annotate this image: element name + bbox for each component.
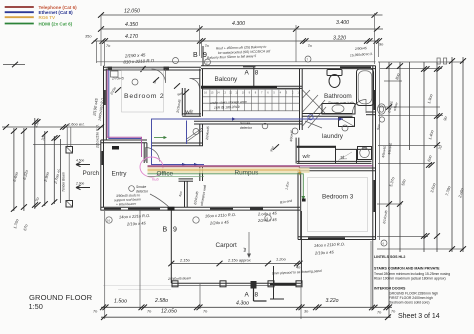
porch posts (66, 147, 73, 208)
section marker B9 top (193, 46, 207, 66)
wall: bathroom south (302, 112, 375, 116)
wall: closet row north (dark) (297, 147, 372, 150)
svg-text:4.300: 4.300 (232, 21, 245, 27)
eave overhang line top (97, 61, 376, 63)
svg-text:Rumpus: Rumpus (235, 169, 259, 176)
svg-text:1:50: 1:50 (29, 302, 43, 311)
wall: bathroom west (300, 69, 303, 130)
bedroom2 inner outline (122, 71, 164, 113)
svg-text:Balcony: Balcony (215, 76, 239, 83)
bedroom2 ceiling mark (109, 77, 159, 96)
rg6 orange line + drop arrow (148, 170, 302, 176)
carport east edge (300, 211, 302, 284)
svg-text:2.9oo: 2.9oo (75, 182, 84, 186)
telephone red line office to bed3 (148, 166, 373, 167)
bedroom3 inner outline (308, 178, 368, 232)
svg-text:2/70x45: 2/70x45 (111, 77, 124, 81)
bottom dim extension verticals (105, 211, 371, 320)
A8 section bottom (245, 281, 267, 301)
NW corner pier (111, 71, 124, 81)
svg-text:fall: fall (243, 248, 247, 252)
rotated notes beside office east wall (178, 126, 210, 206)
wall: bedroom3 north (299, 168, 376, 171)
svg-text:GROUND FLOOR: GROUND FLOOR (29, 293, 93, 302)
wall: left exterior (104, 66, 107, 142)
svg-text:3.220: 3.220 (333, 35, 346, 41)
carport fall arrow (243, 232, 251, 258)
wall: w/r2 west (296, 138, 299, 164)
left wall window rotated labels (91, 97, 104, 121)
balcony rail dark band (201, 86, 302, 88)
driveway faint lines (103, 286, 171, 290)
wall: entry/office divider (144, 143, 147, 163)
top dim line C 350 4.170 3.220 (85, 34, 384, 48)
wall: south exterior (101, 207, 300, 211)
svg-text:Bathroom: Bathroom (324, 93, 352, 100)
smoke detector 2 (240, 122, 268, 130)
svg-text:2.6oo w.t.: 2.6oo w.t. (67, 122, 85, 127)
B9 section line bottom (163, 211, 178, 284)
meter box black (112, 146, 119, 150)
svg-text:FIRST FLOOR 2400mm high: FIRST FLOOR 2400mm high (389, 296, 433, 300)
w/r1 door arc (190, 79, 200, 89)
svg-text:Porch: Porch (83, 170, 100, 177)
legend RG6 TV line (5, 15, 56, 20)
svg-text:Smoke: Smoke (240, 122, 250, 126)
bottom dim line D (93, 298, 396, 313)
blue arrowheads (182, 117, 343, 166)
svg-text:(bedroom doors solid core): (bedroom doors solid core) (389, 301, 430, 305)
studs note (114, 193, 141, 206)
svg-text:1.5oo: 1.5oo (114, 299, 127, 305)
svg-text:detector: detector (240, 126, 253, 130)
green stub near w/r (154, 136, 167, 139)
wall: stairwell west (200, 69, 203, 117)
top dim line B 4.350 4.300 3.400 (98, 20, 383, 32)
legend HDMI line (5, 21, 73, 26)
circled ref right (381, 240, 387, 246)
svg-text:8: 8 (255, 292, 259, 299)
top dim extension verticals (97, 13, 379, 66)
stair note (210, 100, 247, 110)
svg-text:35o: 35o (85, 34, 92, 39)
carport dim row (168, 257, 302, 270)
bathroom door arc (353, 100, 367, 114)
circled ref 16 (106, 217, 112, 223)
svg-text:Smoke: Smoke (136, 185, 146, 189)
svg-text:2/240x45 Beam: 2/240x45 Beam (167, 276, 191, 281)
wall: w/r south (182, 114, 201, 116)
svg-text:A: A (245, 292, 250, 299)
svg-text:B: B (193, 52, 198, 59)
svg-text:4.170: 4.170 (125, 34, 138, 40)
hdmi green line + drop arrow to bedroom3 (148, 174, 306, 200)
svg-text:3.400: 3.400 (336, 20, 349, 26)
svg-text:GROUND FLOOR 2280mm high: GROUND FLOOR 2280mm high (389, 291, 438, 295)
w/r1 600 dim (177, 89, 189, 97)
svg-text:16: 16 (107, 218, 111, 222)
svg-text:2/19o x 45: 2/19o x 45 (126, 220, 147, 226)
small rect marks top right (437, 58, 447, 64)
small left margin dim stub (3, 62, 25, 68)
svg-text:Timber Beam: Timber Beam (62, 172, 66, 192)
bathtub (357, 69, 374, 106)
legend telephone line (5, 5, 77, 10)
svg-text:Bedroom 3: Bedroom 3 (322, 194, 354, 201)
bedroom3 window note (314, 241, 345, 255)
GROUND FLOOR title (29, 293, 93, 311)
svg-text:1.2oo: 1.2oo (276, 257, 287, 262)
laundry trough (358, 147, 372, 160)
svg-text:INTERIOR DOORS: INTERIOR DOORS (374, 287, 406, 291)
right extension horizontals (377, 62, 464, 249)
svg-text:2/24o x 45: 2/24o x 45 (209, 219, 230, 225)
wall: top exterior west (bedroom2) (104, 66, 202, 72)
stair numbers row (204, 91, 299, 95)
carport downpipe (270, 266, 284, 299)
telephone magenta run along left wall (107, 70, 141, 157)
smoke detector 1 (129, 185, 169, 207)
vanity (322, 104, 355, 115)
svg-text:4.3oo: 4.3oo (236, 301, 249, 307)
wall: office east vertical (200, 124, 203, 181)
wall: right exterior (373, 66, 376, 240)
svg-text:+ lintel bearer: + lintel bearer (116, 202, 137, 207)
section marker A8 top (243, 67, 259, 89)
svg-text:Riser 190mm maximum (actual 18: Riser 190mm maximum (actual 180mm approx… (374, 277, 446, 281)
misc circled refs (132, 79, 348, 134)
bedroom2 door arc (152, 69, 166, 83)
porch roof line (33, 144, 101, 146)
svg-text:Tread 280mm minimum including: Tread 280mm minimum including 15-25mm no… (374, 272, 450, 276)
window note left (119, 213, 151, 227)
circled ref near bathroom top (305, 56, 311, 62)
washing machine (339, 118, 355, 127)
svg-text:w/r: w/r (185, 110, 194, 116)
circled ref (193, 215, 271, 223)
wall: porch/entry divider (bedroom2 south) (101, 140, 147, 143)
900 dim near rumpus (269, 144, 279, 152)
stairs treads (203, 90, 300, 111)
wall: top exterior east (201, 66, 376, 69)
hall robe rail + circle (186, 128, 203, 143)
wall: office nook L (179, 179, 194, 207)
rotated stud labels near w/r (174, 83, 182, 114)
svg-text:RG6 TV: RG6 TV (39, 15, 57, 20)
svg-text:HDMI (2x Cat 6): HDMI (2x Cat 6) (39, 21, 73, 26)
svg-text:LINTELS SGS HL2: LINTELS SGS HL2 (374, 255, 405, 259)
handwritten bathroom window note (350, 46, 373, 57)
window note right (257, 210, 278, 223)
top dim line A 12.050 / 3.400 (98, 9, 383, 18)
porch arrows (75, 159, 90, 190)
svg-text:Entry: Entry (112, 171, 128, 178)
right bottom tick pair (369, 240, 382, 315)
svg-text:9: 9 (173, 227, 177, 234)
svg-text:STAIRS COMMON AND MAIN PRIVATE: STAIRS COMMON AND MAIN PRIVATE (374, 267, 440, 271)
svg-text:4.5oo: 4.5oo (76, 159, 84, 163)
st closet mark (338, 152, 352, 161)
svg-text:Sheet 3 of 14: Sheet 3 of 14 (398, 313, 440, 320)
svg-text:2.58o: 2.58o (154, 298, 168, 304)
svg-text:2/19o x 45: 2/19o x 45 (314, 249, 335, 255)
svg-text:Bedroom 2: Bedroom 2 (124, 93, 164, 100)
bottom dim line E (101, 309, 391, 320)
svg-text:12.o5o: 12.o5o (161, 309, 177, 315)
svg-text:w/r: w/r (302, 154, 311, 160)
eave overhang line right (379, 62, 381, 240)
right dim labels rotated (388, 72, 465, 199)
svg-text:2.15o approx: 2.15o approx (227, 258, 252, 263)
wall: entry front (west) (101, 140, 104, 211)
right wall outside notes (376, 124, 393, 158)
HWS symbol outside right wall (378, 101, 399, 122)
svg-text:3.22o: 3.22o (326, 298, 339, 304)
hub ellipse (140, 157, 163, 182)
left dim labels rotated (12, 117, 62, 232)
2.600 dim above porch (2, 122, 104, 147)
svg-text:B: B (163, 227, 168, 234)
svg-text:8: 8 (255, 70, 259, 77)
wall: closet row south (297, 147, 372, 164)
svg-text:Office: Office (157, 170, 174, 177)
ethernet blue main run (109, 70, 343, 165)
toilet (327, 70, 342, 88)
carport beam south (171, 281, 302, 287)
window note mid (205, 212, 236, 226)
blue node circle on bathroom run (308, 115, 313, 120)
wall: w/r-office north wall (151, 143, 203, 146)
wall: stair south wall (194, 121, 302, 124)
legend ethernet line (5, 10, 73, 15)
circled ref below B9 (173, 58, 211, 66)
handwritten balcony notes (207, 45, 271, 60)
svg-text:2.15o: 2.15o (179, 258, 191, 263)
svg-text:4.350: 4.350 (125, 22, 138, 28)
wall: bedroom3 south (298, 237, 376, 240)
svg-text:A: A (245, 70, 250, 77)
wall: bedroom2 east / w-r west (182, 88, 185, 116)
wall: bedroom3 west (298, 171, 301, 240)
svg-text:221ox119o R.O.: 221ox119o R.O. (96, 124, 100, 149)
void diagonals under stairs (303, 90, 327, 128)
annotation 2/190x45 BB over bedroom2 window (123, 52, 155, 64)
office-rumpus highlight band (148, 168, 310, 173)
svg-text:12.050: 12.050 (124, 9, 140, 15)
svg-text:laundry: laundry (322, 133, 344, 140)
svg-text:Carport: Carport (216, 242, 238, 249)
entry door arc (146, 148, 160, 162)
small black node in bedroom3 (302, 199, 306, 202)
svg-text:Shower over bath: Shower over bath (328, 101, 354, 105)
